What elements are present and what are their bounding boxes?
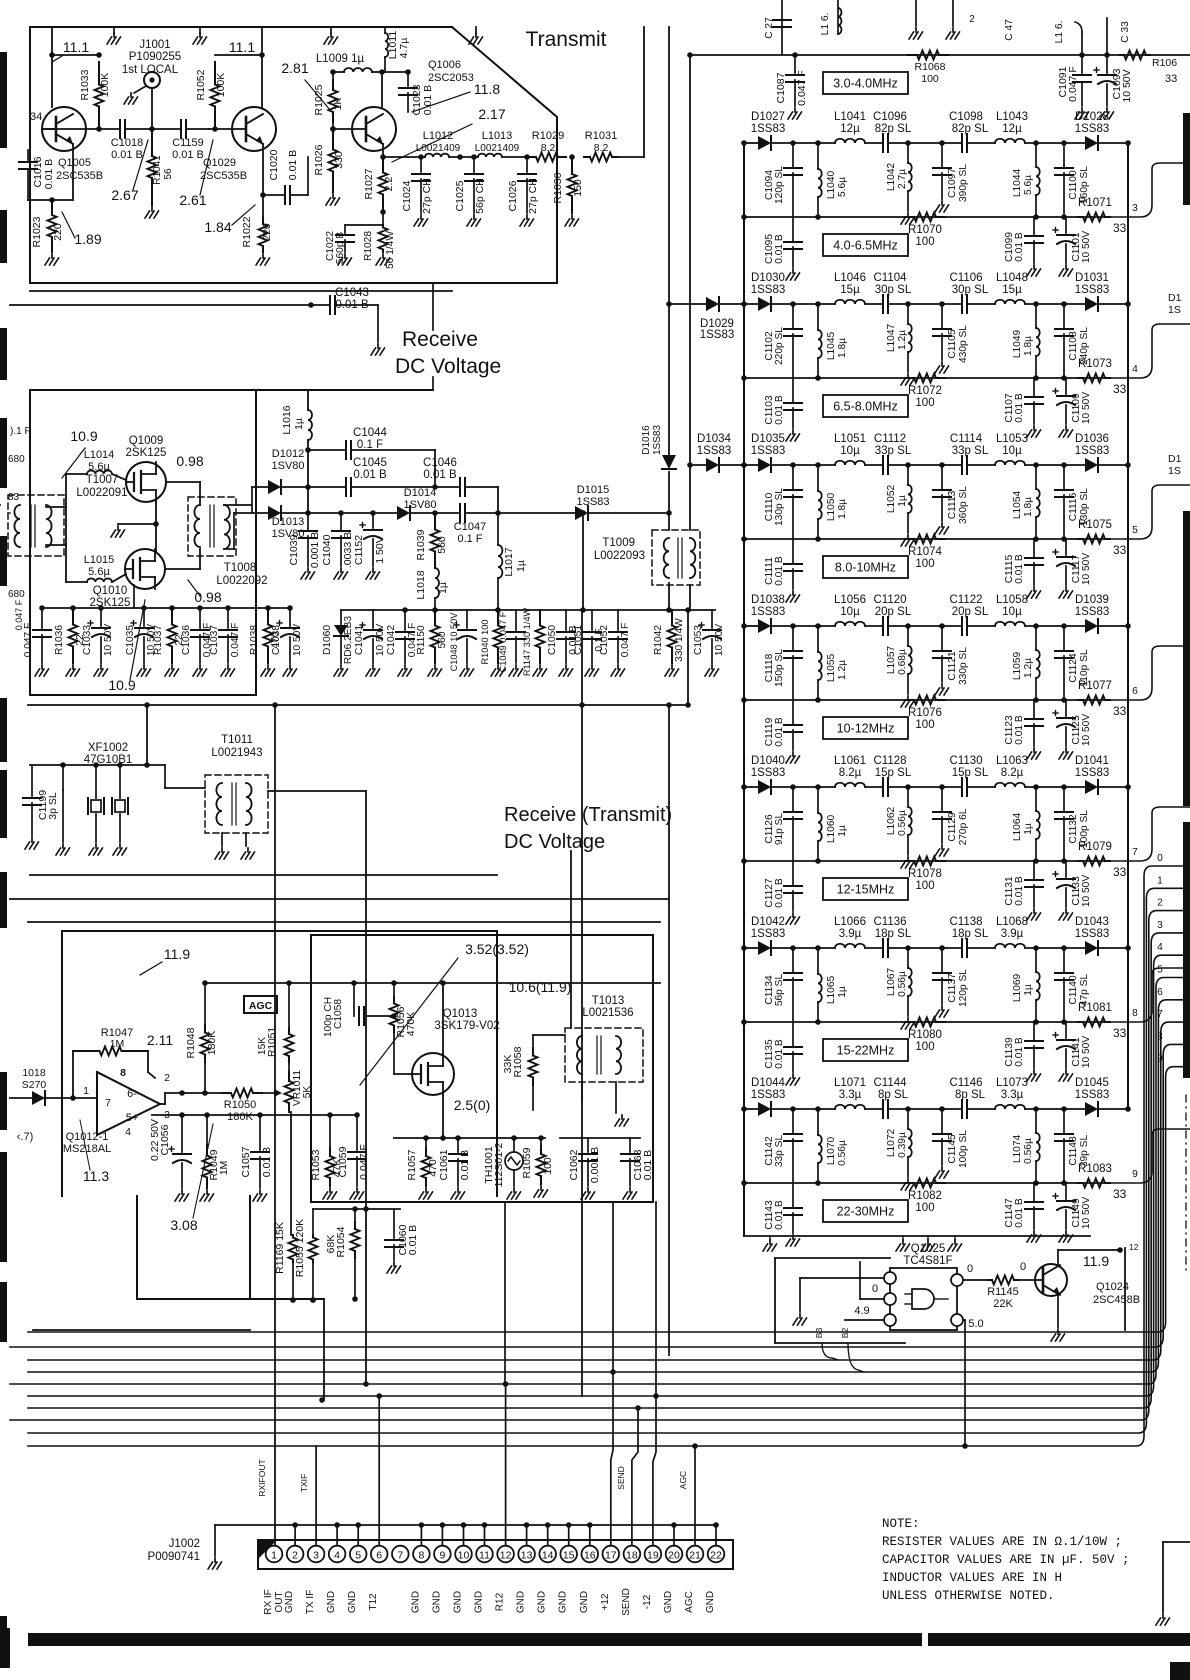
capacitor C1102	[790, 301, 796, 307]
svg-text:15µ: 15µ	[840, 284, 860, 296]
svg-text:C1044: C1044	[353, 427, 387, 439]
svg-text:33: 33	[1113, 1187, 1127, 1201]
svg-text:D1016: D1016	[641, 425, 652, 455]
partial top cut components	[781, 0, 783, 55]
svg-text:1SS83: 1SS83	[751, 123, 786, 135]
svg-text:1 50V: 1 50V	[374, 536, 386, 563]
capacitor C1149 10 50V	[1065, 1183, 1067, 1199]
band label box 3.0-4.0MHz	[823, 72, 908, 94]
svg-text:1.8µ: 1.8µ	[1023, 336, 1034, 356]
svg-text:12µ: 12µ	[1002, 123, 1022, 135]
svg-text:0.98: 0.98	[194, 589, 221, 605]
svg-text:C1038: C1038	[271, 625, 282, 655]
svg-text:L1058: L1058	[996, 594, 1028, 606]
svg-text:L1061: L1061	[834, 755, 866, 767]
svg-text:220p SL: 220p SL	[774, 327, 785, 365]
svg-text:R1048: R1048	[185, 1027, 197, 1058]
svg-text:1µ: 1µ	[437, 582, 449, 594]
diode D1034 1SS83	[690, 464, 706, 466]
svg-text:7: 7	[1132, 847, 1138, 858]
svg-text:L0021943: L0021943	[211, 747, 262, 759]
svg-text:CAPACITOR VALUES ARE IN µF. 50: CAPACITOR VALUES ARE IN µF. 50V ;	[882, 1553, 1130, 1567]
svg-text:C1129: C1129	[947, 812, 958, 842]
svg-text:L1054: L1054	[1012, 491, 1023, 520]
diode D1042 1SS83	[758, 941, 771, 955]
capacitor C1143 0.01 B	[792, 1183, 794, 1207]
svg-text:6: 6	[1132, 686, 1138, 697]
svg-text:R1057: R1057	[406, 1149, 418, 1180]
capacitor C1035 10 50V	[143, 608, 145, 626]
capacitor C1125 10 50V	[1065, 700, 1067, 716]
inductor L1072 shunt	[905, 1106, 911, 1112]
capacitor C1060 0.01B	[393, 1209, 395, 1238]
svg-text:R106: R106	[1152, 57, 1177, 69]
inductor L1009 1u	[333, 71, 344, 73]
svg-text:10 50V: 10 50V	[1081, 231, 1092, 263]
svg-text:0.01 B: 0.01 B	[642, 1150, 654, 1180]
svg-text:L1052: L1052	[886, 485, 897, 514]
capacitor C1134	[790, 945, 796, 951]
svg-text:33K: 33K	[502, 1055, 514, 1074]
svg-text:30p SL: 30p SL	[875, 284, 912, 296]
capacitor C1095 0.01 B	[792, 217, 794, 241]
svg-text:11.8: 11.8	[474, 81, 500, 97]
svg-text:1µ: 1µ	[897, 495, 908, 507]
wire agc line 22-30MHz	[744, 1182, 1110, 1184]
connector pin 16	[582, 1546, 599, 1563]
band label box 4.0-6.5MHz	[823, 234, 908, 256]
connector pin 15	[560, 1546, 577, 1563]
svg-text:0.047 F: 0.047 F	[14, 599, 24, 630]
svg-text:L1047: L1047	[886, 324, 897, 353]
svg-text:10µ: 10µ	[1002, 606, 1022, 618]
inductor L1058	[995, 622, 1025, 626]
svg-text:1SS83: 1SS83	[751, 928, 786, 940]
svg-text:+12: +12	[600, 1593, 611, 1610]
svg-text:C1045: C1045	[353, 457, 387, 469]
resistor R1033 100K	[52, 54, 99, 56]
svg-text:10 50V: 10 50V	[292, 624, 303, 656]
svg-text:1.2µ: 1.2µ	[1023, 658, 1034, 678]
svg-text:C1061: C1061	[438, 1149, 450, 1180]
capacitor C1087 0.047F	[792, 52, 798, 58]
svg-text:L1065: L1065	[826, 976, 837, 1005]
svg-text:8: 8	[120, 1067, 126, 1079]
svg-text:9: 9	[1157, 1054, 1163, 1065]
resistor R1083 33	[1078, 1182, 1083, 1184]
svg-text:13: 13	[521, 1550, 533, 1562]
svg-text:Receive (Transmit): Receive (Transmit)	[504, 804, 672, 826]
resistor R1048 180K	[204, 983, 206, 1025]
diode D1031 1SS83	[1085, 297, 1098, 311]
capacitor C1140 shunt	[1061, 945, 1067, 951]
svg-text:1µ: 1µ	[1023, 823, 1034, 835]
wire riser x669 lower	[668, 1355, 670, 1360]
svg-text:4: 4	[125, 1126, 131, 1138]
svg-text:GND: GND	[453, 1591, 464, 1613]
svg-text:18: 18	[626, 1550, 638, 1562]
capacitor C1024 27p CH	[418, 154, 424, 160]
svg-text:R1071: R1071	[1078, 197, 1112, 209]
ground filter bottom	[927, 1236, 929, 1240]
inductor L1050	[815, 462, 821, 468]
capacitor C1131 0.01 B	[1033, 861, 1035, 879]
svg-text:2SC2053: 2SC2053	[428, 72, 474, 84]
svg-text:C1036: C1036	[181, 625, 192, 655]
svg-text:R1023: R1023	[31, 216, 43, 247]
capacitor C1034 0.047F	[41, 608, 43, 628]
svg-text:22: 22	[710, 1550, 722, 1562]
box AGC label	[244, 996, 277, 1013]
svg-text:1S: 1S	[1168, 304, 1181, 316]
svg-text:C1124: C1124	[1068, 653, 1079, 683]
resistor R1039 560 / inductor L1018 1u	[434, 513, 436, 530]
capacitor C1106	[961, 295, 963, 313]
resistor R1040 100	[497, 610, 499, 626]
connector pin 8	[413, 1546, 430, 1563]
svg-text:D1042: D1042	[751, 916, 785, 928]
svg-text:0.56µ: 0.56µ	[837, 1140, 848, 1166]
capacitor C1152 1 50V	[372, 513, 374, 528]
inductor L1013 L0021409	[449, 156, 478, 158]
diode D1036 1SS83	[1085, 458, 1098, 472]
svg-text:C1041: C1041	[354, 625, 365, 655]
svg-text:-12: -12	[642, 1594, 653, 1609]
ground filter bottom	[954, 1236, 956, 1240]
svg-text:L1059: L1059	[1012, 652, 1023, 681]
resistor R1038 470	[267, 608, 269, 625]
wire cluster line	[405, 609, 715, 611]
svg-text:0.047 F: 0.047 F	[23, 623, 34, 658]
resistor R1047 1M feedback	[72, 1051, 74, 1098]
svg-text:L1014: L1014	[84, 449, 115, 461]
svg-text:6-: 6-	[127, 1088, 137, 1100]
svg-text:18p SL: 18p SL	[875, 928, 912, 940]
svg-text:100: 100	[542, 1157, 554, 1175]
svg-text:4: 4	[1157, 942, 1163, 953]
diode D1035 1SS83	[758, 458, 771, 472]
svg-text:10 50V: 10 50V	[1081, 1036, 1092, 1068]
svg-text:R1041: R1041	[152, 155, 163, 185]
svg-text:C1098: C1098	[949, 111, 983, 123]
svg-text:8.2: 8.2	[541, 142, 556, 154]
inductor L1063	[995, 783, 1025, 787]
inductor L1061	[835, 783, 865, 787]
svg-text:L1040: L1040	[826, 171, 837, 200]
svg-text:20p SL: 20p SL	[952, 606, 989, 618]
resistor R1057 470	[425, 1138, 427, 1148]
connector pin 1	[266, 1546, 283, 1563]
svg-text:3.08: 3.08	[170, 1217, 197, 1233]
wire agc rail	[205, 982, 660, 984]
svg-text:R1068: R1068	[915, 61, 946, 73]
svg-text:GND: GND	[474, 1591, 485, 1613]
wire vr1011 to r1169	[290, 1112, 292, 1235]
inductor L1065	[815, 945, 821, 951]
resistor R1053 47K	[329, 1115, 331, 1148]
capacitor C1063 0.01B	[629, 1138, 631, 1152]
diode D1038 1SS83	[758, 619, 771, 633]
capacitor C1147 0.01 B	[1033, 1183, 1035, 1201]
svg-text:10: 10	[458, 1550, 470, 1562]
svg-text:33: 33	[1113, 1026, 1127, 1040]
resistor R1079 33	[1078, 860, 1083, 862]
capacitor C1103 0.01 B	[792, 378, 794, 402]
capacitor C1108 shunt	[1061, 301, 1067, 307]
resistor R1037 22	[171, 608, 173, 625]
svg-text:TX IF: TX IF	[305, 1590, 316, 1614]
wire xf1002 input line	[30, 764, 165, 766]
svg-text:0.001 B: 0.001 B	[309, 532, 321, 568]
wire vertical bus 669	[668, 27, 670, 455]
capacitor C1046 0.01B	[435, 486, 460, 488]
svg-text:R12: R12	[495, 1592, 506, 1611]
svg-text:9: 9	[439, 1550, 445, 1562]
svg-text:R1027: R1027	[363, 168, 375, 199]
svg-text:100K: 100K	[215, 73, 227, 98]
diode D1013 1SV80	[268, 506, 281, 520]
capacitor C1020	[263, 194, 285, 196]
band label box 12-15MHz	[823, 878, 908, 900]
svg-text:3SK179-V02: 3SK179-V02	[434, 1020, 499, 1032]
svg-text:C1097: C1097	[947, 168, 958, 198]
svg-text:9: 9	[1132, 1169, 1138, 1180]
svg-text:C1018: C1018	[111, 137, 143, 149]
svg-text:8p SL: 8p SL	[955, 1089, 986, 1101]
capacitor C1039 0.001B	[307, 513, 309, 530]
resistor R1169 15K	[292, 1235, 294, 1238]
svg-text:5.6µ: 5.6µ	[837, 177, 848, 197]
svg-text:UNLESS OTHERWISE NOTED.: UNLESS OTHERWISE NOTED.	[882, 1589, 1055, 1603]
svg-text:360p SL: 360p SL	[958, 486, 969, 524]
svg-text:1SS83: 1SS83	[700, 329, 735, 341]
inductor L1012 L0021409	[425, 154, 449, 157]
svg-text:10 50V: 10 50V	[103, 624, 114, 656]
svg-text:17: 17	[605, 1550, 617, 1562]
diode D1012 1SV80	[252, 486, 268, 488]
svg-text:11.3: 11.3	[83, 1168, 109, 1184]
svg-text:R1055 120K: R1055 120K	[294, 1219, 306, 1277]
svg-text:R1037: R1037	[153, 625, 164, 655]
svg-text:1.8µ: 1.8µ	[837, 338, 848, 358]
wire filter line 4.0-6.5MHz	[744, 142, 758, 144]
svg-text:180K: 180K	[206, 1031, 218, 1056]
wire mixer decoupling rail	[42, 607, 290, 609]
capacitor C1132 shunt	[1061, 784, 1067, 790]
resistor R1054 68K	[354, 1209, 356, 1222]
svg-text:11.1: 11.1	[229, 39, 255, 55]
svg-text:Q1025: Q1025	[911, 1243, 946, 1255]
capacitor C1138	[961, 939, 963, 957]
svg-text:C1033: C1033	[82, 625, 93, 655]
inductor L1073	[995, 1105, 1025, 1109]
wire mixer bus drop	[146, 705, 148, 765]
capacitor C1051 0.1F	[591, 610, 593, 630]
svg-text:Q1012-1: Q1012-1	[66, 1131, 109, 1143]
svg-text:10µ: 10µ	[840, 445, 860, 457]
svg-text:2.81: 2.81	[281, 60, 308, 76]
resistor R1058 33K	[532, 1035, 534, 1048]
inductor L1047 shunt	[905, 301, 911, 307]
svg-text:R1079: R1079	[1078, 841, 1112, 853]
svg-text:0.01 B: 0.01 B	[353, 469, 387, 481]
svg-text:GND: GND	[431, 1591, 442, 1613]
svg-text:330 1/4W: 330 1/4W	[674, 618, 685, 662]
op-amp Q1012-1 MS218AL	[97, 1072, 160, 1135]
svg-text:100p SL: 100p SL	[958, 1130, 969, 1168]
svg-text:0.01 B: 0.01 B	[774, 1039, 785, 1069]
svg-text:L1073: L1073	[996, 1077, 1028, 1089]
svg-text:0.047 F: 0.047 F	[796, 70, 808, 106]
capacitor C1091 0.047F	[1079, 52, 1085, 58]
resistor R1023 220	[51, 200, 53, 215]
svg-text:B3: B3	[814, 1328, 824, 1339]
wire Q1005 base	[42, 128, 99, 130]
svg-text:0.01 B: 0.01 B	[1014, 1037, 1025, 1067]
scan mark left edge	[0, 52, 7, 148]
svg-text:8.0-10MHz: 8.0-10MHz	[835, 561, 896, 575]
capacitor C1133 10 50V	[1065, 861, 1067, 877]
svg-text:3p SL: 3p SL	[47, 792, 59, 820]
svg-text:C1106: C1106	[949, 272, 982, 284]
svg-text:0.01 B: 0.01 B	[774, 234, 785, 264]
svg-text:R1083: R1083	[1078, 1163, 1112, 1175]
svg-text:0: 0	[967, 1263, 973, 1275]
capacitor C1022 560p / resistor R1028 56 1/4W	[345, 224, 383, 226]
svg-text:1.8µ: 1.8µ	[1023, 497, 1034, 517]
svg-text:220: 220	[52, 223, 64, 241]
svg-text:0.01 B: 0.01 B	[774, 1200, 785, 1230]
svg-text:R1073: R1073	[1078, 358, 1112, 370]
resistor R1078 100	[905, 860, 914, 862]
svg-text:0: 0	[872, 1283, 878, 1295]
svg-text:D1040: D1040	[751, 755, 785, 767]
svg-text:1.2µ: 1.2µ	[837, 660, 848, 680]
svg-text:D1039: D1039	[1075, 594, 1109, 606]
capacitor C1056 0.22 50V	[181, 1115, 183, 1152]
resistor R1025 1K	[332, 72, 334, 80]
capacitor C1097 shunt	[939, 140, 945, 146]
inductor L1074 shunt	[1033, 1106, 1039, 1112]
capacitor C1096	[865, 142, 883, 144]
svg-text:L1 6.: L1 6.	[820, 13, 831, 36]
capacitor C1139 0.01 B	[1033, 1022, 1035, 1040]
transistor Q1006	[352, 107, 396, 151]
wire source coupling	[155, 500, 157, 551]
capacitor C1104	[865, 303, 883, 305]
resistor R1074 100	[905, 538, 914, 540]
svg-text:L1070: L1070	[826, 1137, 837, 1166]
svg-text:RESISTER VALUES ARE IN Ω.1/10: RESISTER VALUES ARE IN Ω.1/10W ;	[882, 1535, 1122, 1549]
resistor R1049 1M	[206, 1115, 208, 1145]
svg-text:0.01 B: 0.01 B	[774, 878, 785, 908]
ground top 1	[113, 27, 115, 33]
svg-text:C1146: C1146	[949, 1077, 982, 1089]
svg-text:GND: GND	[284, 1591, 295, 1613]
svg-text:R1040 100: R1040 100	[480, 620, 490, 665]
svg-text:L1072: L1072	[886, 1129, 897, 1158]
svg-text:33p SL: 33p SL	[774, 1135, 785, 1168]
svg-text:R1074: R1074	[908, 546, 942, 558]
svg-text:D1045: D1045	[1075, 1077, 1109, 1089]
wire r1054 line	[313, 1208, 400, 1210]
svg-text:33: 33	[1113, 704, 1127, 718]
inductor L1011 4.7u	[384, 27, 386, 33]
wire q1013 source	[442, 1094, 444, 1138]
capacitor C1094	[790, 140, 796, 146]
svg-text:C1020: C1020	[268, 149, 280, 180]
svg-text:100: 100	[915, 558, 934, 570]
svg-text:AGC: AGC	[678, 1471, 688, 1489]
svg-text:C1114: C1114	[950, 433, 983, 445]
wire agc line 10-12MHz	[744, 699, 1110, 701]
capacitor C1115 0.01 B	[1033, 539, 1035, 557]
wire exit 5	[1110, 485, 1190, 539]
svg-text:R1150: R1150	[416, 625, 427, 655]
svg-text:C1024: C1024	[401, 180, 413, 211]
svg-text:33: 33	[1113, 221, 1127, 235]
svg-text:R1026: R1026	[313, 144, 325, 175]
capacitor C1099 0.01 B	[1033, 217, 1035, 235]
svg-text:1M: 1M	[110, 1038, 125, 1050]
svg-text:).1 F: ).1 F	[10, 426, 31, 437]
svg-text:0.047 F: 0.047 F	[230, 623, 241, 658]
svg-text:560: 560	[436, 536, 448, 554]
svg-text:1µ: 1µ	[837, 825, 848, 837]
svg-text:D1: D1	[1168, 453, 1182, 465]
svg-text:15K: 15K	[257, 1037, 268, 1055]
svg-text:3: 3	[1157, 920, 1163, 931]
capacitor C1135 0.01 B	[792, 1022, 794, 1046]
wire q1013 source node	[394, 1137, 545, 1139]
svg-text:8: 8	[1157, 1031, 1163, 1042]
wire lower drops	[323, 1299, 325, 1400]
svg-text:33p SL: 33p SL	[952, 445, 989, 457]
svg-text:L1053: L1053	[996, 433, 1028, 445]
inductor L1054 shunt	[1033, 462, 1039, 468]
resistor R1029 8.2	[528, 156, 536, 158]
inductor L1059 shunt	[1033, 623, 1039, 629]
svg-text:L1012: L1012	[423, 130, 454, 142]
capacitor C1043 0.01 B	[10, 304, 330, 306]
svg-text:22-30MHz: 22-30MHz	[837, 1205, 895, 1219]
svg-text:C1105: C1105	[947, 329, 958, 359]
wire riser x505	[504, 1202, 506, 1384]
capacitor C1047 0.1F	[459, 504, 461, 522]
svg-text:100: 100	[915, 1202, 934, 1214]
box transmit amplifier section	[30, 27, 557, 283]
svg-text:8.2: 8.2	[594, 142, 609, 154]
svg-text:3.52(3.52): 3.52(3.52)	[465, 941, 529, 957]
svg-text:1SS83: 1SS83	[576, 496, 609, 508]
inductor L1064 shunt	[1033, 784, 1039, 790]
transformer T1013 L0021536	[565, 1028, 643, 1082]
wire filter line 8.0-10MHz	[744, 464, 758, 466]
diode D1014 1SV80	[397, 506, 410, 520]
resistor R1059 100	[540, 1138, 542, 1146]
svg-text:S270: S270	[22, 1079, 47, 1091]
capacitor C1042 0.047F	[404, 610, 406, 630]
svg-text:C1026: C1026	[507, 180, 519, 211]
inductor L1048	[995, 300, 1025, 304]
svg-text:TXIF: TXIF	[299, 1474, 309, 1492]
resistor R1056 470K	[393, 983, 395, 997]
svg-text:C1136: C1136	[873, 916, 906, 928]
svg-text:R1072: R1072	[908, 385, 942, 397]
svg-text:0.1 F: 0.1 F	[457, 533, 482, 545]
box q1025 section	[775, 1257, 890, 1259]
svg-text:20p SL: 20p SL	[875, 606, 912, 618]
